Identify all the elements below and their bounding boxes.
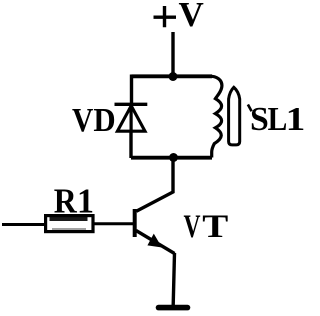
wire input lead left (2, 223, 46, 226)
transistor VT (135, 209, 175, 254)
resistor R1 (46, 216, 93, 232)
wire emitter down (173, 253, 174, 305)
wire top horizontal (132, 74, 213, 78)
wire left branch down to diode (130, 75, 133, 104)
power label +V (154, 0, 204, 34)
svg-text:1: 1 (77, 182, 94, 221)
wire bottom horizontal (131, 156, 212, 160)
node bottom junction (169, 153, 178, 162)
svg-text:T: T (202, 209, 228, 245)
svg-text:L: L (268, 101, 288, 138)
wire supply vertical (171, 32, 174, 76)
diode VD (115, 104, 148, 131)
svg-text:R: R (54, 182, 78, 221)
ground (159, 305, 188, 311)
relay coil SL1 (212, 76, 240, 157)
svg-text:V: V (184, 209, 201, 245)
svg-text:V: V (72, 102, 94, 139)
svg-text:V: V (179, 0, 204, 34)
wire base lead (94, 222, 134, 225)
wire collector (136, 160, 173, 211)
svg-text:1: 1 (286, 101, 306, 138)
label SL1 (248, 101, 306, 138)
svg-text:S: S (250, 101, 269, 138)
svg-text:D: D (93, 102, 115, 139)
wire diode anode down (129, 132, 132, 159)
node top junction (169, 72, 178, 81)
